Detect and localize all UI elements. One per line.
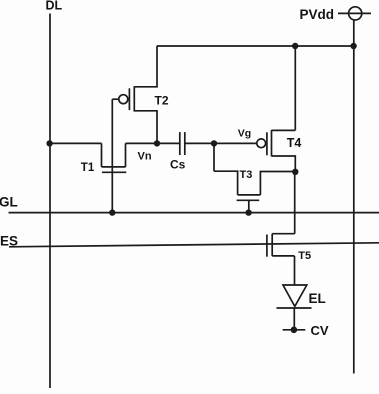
junction DL — [46, 140, 52, 146]
wire T4 source to T5 drain — [294, 172, 296, 234]
wire EL to CV — [293, 308, 295, 330]
wire top supply — [157, 45, 354, 47]
transistor T1 — [102, 143, 127, 172]
transistor T5 — [267, 234, 295, 257]
diode EL — [277, 285, 312, 308]
wire DL data line — [49, 14, 51, 389]
transistor T4 — [257, 130, 295, 172]
svg-text:T2: T2 — [155, 93, 169, 107]
svg-text:T5: T5 — [298, 250, 311, 262]
svg-text:T1: T1 — [81, 162, 95, 174]
svg-text:PVdd: PVdd — [300, 7, 335, 22]
wire ES emission line — [9, 243, 379, 247]
PVdd supply terminal — [338, 7, 371, 20]
capacitor Cs — [180, 132, 185, 155]
wire GL scan line — [9, 212, 379, 214]
svg-text:GL: GL — [0, 195, 18, 210]
junction top wire rail — [350, 43, 356, 49]
node Vg junction — [211, 140, 217, 146]
wire Vg to T4 gate — [214, 142, 257, 144]
wire T4 drain riser — [294, 46, 296, 130]
svg-text:Cs: Cs — [170, 158, 186, 172]
wire T2/T1 gate to GL — [111, 99, 113, 212]
svg-text:EL: EL — [309, 291, 326, 306]
junction T4 source T3 — [292, 169, 298, 175]
svg-text:T3: T3 — [240, 169, 253, 181]
junction top wire T4 drain — [292, 43, 298, 49]
svg-text:CV: CV — [311, 323, 329, 338]
transistor T2 — [112, 46, 157, 141]
transistor T3 — [214, 171, 295, 212]
junction gate line GL — [109, 209, 115, 215]
wire Vg node down to T3 — [213, 143, 215, 171]
wire PVdd rail — [353, 20, 355, 374]
junction T3 gate GL — [245, 209, 251, 215]
node Vn — [154, 140, 160, 146]
svg-text:Vg: Vg — [238, 128, 251, 140]
wire Cs to node Vg — [185, 142, 214, 144]
wire DL to T1 — [50, 142, 102, 144]
wire Vn to Cs — [157, 142, 180, 144]
svg-text:DL: DL — [46, 0, 63, 13]
wire T5 source to EL — [294, 256, 296, 285]
svg-text:T4: T4 — [287, 136, 302, 150]
terminal CV — [283, 327, 306, 334]
svg-text:Vn: Vn — [138, 150, 152, 162]
wire T1 to node Vn — [126, 142, 158, 144]
